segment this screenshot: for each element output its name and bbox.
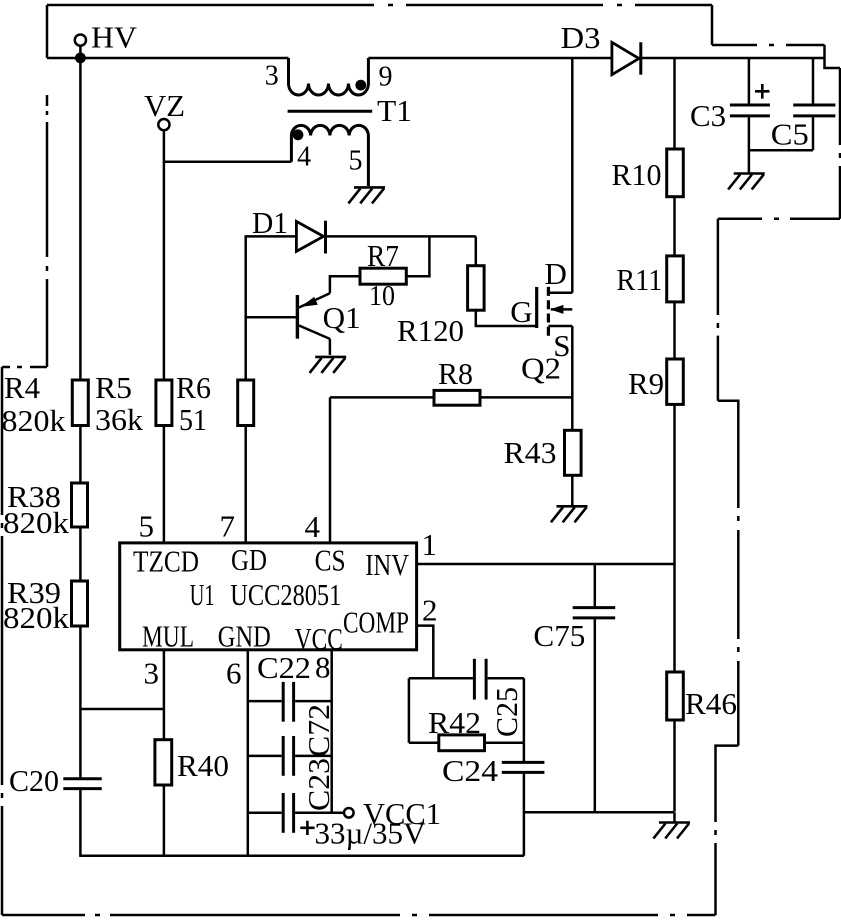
svg-text:R43: R43 (504, 435, 557, 470)
svg-text:7: 7 (220, 509, 236, 544)
svg-text:MUL: MUL (142, 619, 194, 654)
node VCC1 terminal (315, 796, 442, 851)
ground at R43 (551, 506, 588, 522)
wire: VZ to transformer winding 4 (164, 161, 292, 164)
wire: HV vertical drop through R4/R38/R39 (79, 58, 82, 778)
svg-text:R42: R42 (428, 705, 481, 740)
svg-text:4: 4 (297, 142, 311, 173)
svg-text:R40: R40 (177, 748, 229, 783)
resistor R4 (2, 370, 89, 438)
capacitor C75 (533, 564, 615, 812)
svg-text:820k: 820k (2, 403, 67, 438)
capacitor C23 (33u/35V electrolytic) (248, 758, 344, 835)
svg-text:GD: GD (231, 542, 267, 577)
module boundary left jog (2, 366, 47, 369)
svg-text:5: 5 (139, 509, 155, 544)
wire: R7 right up to D1 wire (406, 236, 429, 276)
svg-text:5: 5 (349, 145, 363, 176)
svg-text:C20: C20 (9, 763, 59, 798)
T1 core bar (288, 110, 373, 113)
wire: INV pin 1 to feedback node (417, 563, 675, 566)
svg-text:R9: R9 (628, 366, 664, 401)
resistor R6 (176, 370, 254, 437)
svg-text:C24: C24 (442, 753, 499, 788)
wire: R8 rail (CS sense) (330, 396, 572, 399)
wire: C75 bottom to R46 ground node (524, 812, 675, 822)
ground at R46/C75 (653, 823, 690, 839)
wire: D1 anode branch (246, 236, 297, 380)
transistor Q1 (PNP) (297, 293, 360, 355)
module boundary left edge upper (dash-dot) (46, 5, 49, 367)
svg-text:Q2: Q2 (521, 351, 561, 386)
transformer T1 (265, 58, 412, 186)
svg-text:C25: C25 (489, 687, 524, 737)
T1 secondary phase dot (293, 129, 304, 140)
wire: top-right jog to right border (825, 58, 841, 68)
capacitor C25 (473, 659, 476, 700)
svg-text:R7: R7 (367, 238, 399, 273)
capacitor C3 (electrolytic) (690, 58, 770, 174)
capacitor C72 (248, 704, 336, 776)
svg-text:C22: C22 (257, 650, 311, 685)
module boundary top edge (dash-dot) (47, 4, 712, 7)
module boundary top-right corner (dash-dot) (712, 5, 825, 58)
node HV terminal (75, 19, 138, 63)
diode D1 (252, 205, 326, 254)
resistor R120 (397, 266, 484, 348)
ground at Q1 collector (310, 357, 347, 373)
node VZ terminal (144, 88, 185, 130)
svg-text:820k: 820k (3, 600, 70, 635)
wire: Q2 source down through R8 node to R43 (571, 326, 574, 430)
svg-text:C3: C3 (690, 98, 726, 133)
svg-text:9: 9 (379, 62, 393, 93)
module boundary right upper horizontal at y=218.7 (dash-dot) (718, 217, 840, 220)
resistor R42 and capacitor C25 network (409, 659, 524, 751)
capacitor C22 (248, 650, 332, 722)
transistor Q2 (N-MOSFET) (510, 256, 572, 386)
op-amp U1 UCC28051 IC body (120, 542, 417, 656)
T1 secondary winding pins 4-5 (291, 125, 368, 186)
T1 primary winding pins 3-9 (289, 58, 369, 95)
svg-text:4: 4 (305, 509, 321, 544)
svg-text:51: 51 (179, 402, 207, 437)
svg-text:3: 3 (265, 61, 279, 92)
svg-text:D: D (545, 256, 567, 291)
resistor R5 (95, 370, 172, 437)
svg-text:GND: GND (218, 619, 271, 654)
ground at T1 pin 5 (348, 187, 385, 203)
wire: Q1 base tap (246, 316, 298, 319)
resistor R10 (612, 149, 684, 197)
resistor R40 (155, 740, 229, 785)
resistor R38 (3, 479, 88, 540)
svg-text:R5: R5 (95, 370, 132, 405)
svg-text:3: 3 (144, 656, 160, 691)
svg-text:Q1: Q1 (323, 300, 361, 335)
svg-text:C23: C23 (301, 758, 336, 811)
wire: Q2 drain to HV rail (571, 58, 574, 293)
svg-text:R120: R120 (397, 313, 464, 348)
wire: CS pin drop (329, 397, 332, 543)
wire: VZ vertical through R5 to pin 5 (163, 130, 166, 543)
svg-text:G: G (510, 294, 532, 329)
svg-text:C5: C5 (771, 116, 809, 151)
svg-text:10: 10 (369, 281, 395, 312)
resistor R42 (439, 735, 485, 751)
wire: bottom ground rail (79, 854, 524, 857)
wire: R120 bottom to Q2 gate (476, 310, 537, 326)
svg-text:TZCD: TZCD (133, 544, 199, 579)
capacitor C5 (771, 58, 836, 151)
svg-text:R4: R4 (4, 370, 40, 405)
svg-text:R10: R10 (612, 157, 662, 192)
resistor R7 (360, 238, 406, 312)
wire: R6 bottom to pin 7 (244, 426, 247, 543)
wire: C3 to C5 bottom link (749, 149, 813, 152)
svg-text:2: 2 (422, 593, 438, 628)
module boundary far right edge (dash-dot) (839, 68, 841, 219)
resistor R9 (628, 359, 683, 404)
wire: COMP pin 2 jog down (417, 626, 434, 679)
wire: GND pin 6 down to ground rail (247, 650, 250, 856)
svg-text:R6: R6 (176, 370, 211, 405)
wire: junction R39-C20 to MUL pin branch (80, 708, 163, 711)
svg-text:VZ: VZ (144, 88, 185, 123)
svg-text:36k: 36k (95, 402, 144, 437)
module boundary right edge lower (dash-dot) (716, 219, 739, 915)
svg-text:R11: R11 (616, 262, 662, 297)
wire: VCC pin 8 down (330, 650, 333, 813)
wire: MUL pin 3 down to R40 (163, 650, 166, 740)
svg-text:UCC28051: UCC28051 (230, 577, 341, 612)
svg-text:D1: D1 (252, 205, 288, 240)
wire: D1 cathode to R120 branch (326, 235, 476, 238)
T1 primary phase dot (355, 80, 366, 91)
svg-text:R8: R8 (438, 356, 473, 391)
module boundary left edge lower (dash-dot) (1, 367, 4, 915)
svg-text:INV: INV (365, 547, 409, 582)
svg-text:T1: T1 (377, 93, 412, 128)
wire: R40 bottom to ground rail (163, 785, 166, 856)
svg-text:1: 1 (422, 527, 438, 562)
resistor R8 (434, 356, 480, 405)
diode D3 (561, 20, 641, 75)
svg-text:CS: CS (315, 543, 346, 578)
svg-text:820k: 820k (3, 505, 70, 540)
wire: C20 bottom to ground rail (79, 788, 82, 855)
resistor R11 (616, 256, 683, 302)
svg-text:D3: D3 (561, 20, 601, 55)
svg-text:C72: C72 (301, 704, 336, 757)
svg-text:R46: R46 (685, 686, 737, 721)
svg-text:33µ/35V: 33µ/35V (315, 816, 427, 851)
svg-text:COMP: COMP (343, 605, 409, 640)
wire: R7 left to Q1 emitter (330, 276, 360, 293)
svg-text:8: 8 (315, 650, 331, 685)
resistor R39 (3, 575, 88, 635)
resistor R43 (504, 430, 582, 475)
wire: main HV rail top (47, 57, 825, 60)
ground at C3 (728, 174, 765, 190)
capacitor C20 (9, 763, 102, 798)
svg-text:HV: HV (91, 19, 138, 54)
resistor R46 (667, 672, 737, 721)
wire: D3 output to R10 chain (673, 58, 676, 812)
svg-text:6: 6 (226, 656, 242, 691)
wire: R43 bottom to ground (571, 475, 574, 506)
module boundary bottom edge (dash-dot) (2, 914, 716, 917)
svg-text:U1: U1 (190, 577, 215, 612)
wire: R120 top (475, 236, 478, 265)
svg-text:C75: C75 (533, 618, 585, 653)
capacitor C24 (442, 743, 544, 856)
